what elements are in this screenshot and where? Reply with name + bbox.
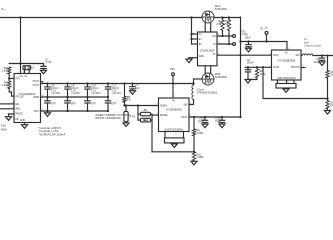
wire output rail 3.3V — [313, 55, 333, 57]
svg-text:4.7M: 4.7M — [130, 116, 135, 118]
ground U2 — [189, 57, 198, 59]
svg-text:GND: GND — [20, 119, 26, 122]
svg-text:C1+ C1-: C1+ C1- — [19, 76, 28, 78]
svg-text:Vᴵₙ: Vᴵₙ — [172, 99, 175, 102]
svg-text:PROG: PROG — [16, 113, 23, 116]
diode D1 bypass — [138, 119, 141, 121]
svg-text:LTC3226EUD: LTC3226EUD — [19, 92, 36, 96]
svg-text:OPT: OPT — [91, 102, 97, 105]
stub PGOOD — [301, 67, 305, 69]
wire U2 output sense — [217, 35, 232, 37]
ground charger GND pin — [24, 123, 26, 125]
resistor R2 475k — [221, 16, 223, 18]
svg-text:3: 3 — [269, 54, 270, 56]
svg-text:RUN: RUN — [273, 54, 279, 57]
ground jumper J2 — [125, 122, 127, 123]
wire L2 to SW — [189, 100, 194, 105]
resistor R3 1.2M — [8, 67, 11, 74]
junction top rail to ideal-diode IC — [190, 16, 192, 18]
junction top rail to charger — [19, 16, 21, 18]
wire U2 gate out — [217, 43, 232, 45]
capacitor C8* supercap 100mF — [46, 82, 48, 84]
svg-text:1: 1 — [288, 48, 289, 50]
svg-text:Vᴵₙ: Vᴵₙ — [199, 33, 202, 36]
resistor R10 1.40M — [192, 152, 195, 161]
node terminal VOUT2 — [233, 43, 236, 46]
inductor L2 2.2uH — [192, 85, 194, 100]
svg-text:8: 8 — [12, 102, 13, 104]
svg-text:VOUT: VOUT — [32, 80, 39, 83]
svg-text:3: 3 — [42, 109, 43, 111]
capacitor C11* supercap 100mF — [107, 82, 109, 84]
capacitor C1 flying box — [23, 66, 31, 70]
svg-text:2: 2 — [157, 104, 158, 106]
svg-text:SHDN: SHDN — [160, 104, 167, 107]
svg-text:475k: 475k — [216, 23, 222, 26]
capacitor C15 supercap optional — [107, 97, 109, 101]
ground divider — [327, 109, 329, 111]
wire bypass right leg to FB — [151, 114, 153, 152]
wire FB node — [193, 136, 195, 152]
svg-text:6: 6 — [190, 103, 191, 105]
svg-text:GND: GND — [199, 56, 204, 58]
svg-text:3.6V: 3.6V — [1, 124, 7, 128]
svg-text:10: 10 — [42, 95, 44, 97]
svg-text:1.60M: 1.60M — [197, 132, 204, 135]
svg-text:1.2M: 1.2M — [1, 69, 8, 73]
svg-text:OPT: OPT — [111, 102, 117, 105]
wire U2 STAT to RUN — [217, 54, 272, 56]
svg-text:Vᴵₙ: Vᴵₙ — [285, 51, 288, 54]
svg-text:PFI: PFI — [16, 77, 20, 81]
ground PROG resistor path — [6, 117, 12, 121]
svg-text:9: 9 — [175, 134, 176, 136]
capacitor C16 10uF — [221, 117, 223, 120]
svg-text:6: 6 — [218, 34, 219, 36]
svg-text:+SCAP2: +SCAP2 — [71, 92, 81, 95]
svg-text:475k: 475k — [223, 23, 229, 26]
svg-text:PGOOD: PGOOD — [291, 67, 300, 69]
ground C2 — [41, 70, 47, 74]
svg-text:AWG: AWG — [1, 127, 7, 131]
node terminal VOUT1 — [233, 35, 236, 38]
svg-text:OPT: OPT — [71, 102, 77, 105]
resistor R4 1.2M — [8, 81, 11, 89]
resistor R7 200k — [327, 99, 329, 101]
wire R4 to PFI_SET pin — [9, 89, 14, 97]
svg-text:VOUT: VOUT — [181, 116, 188, 119]
svg-text:1.40M: 1.40M — [197, 156, 204, 159]
jumper J2 shutdown — [125, 104, 127, 106]
svg-text:+SCAP4: +SCAP4 — [111, 92, 121, 95]
svg-text:1: 1 — [193, 32, 194, 34]
wire FB to pin — [152, 151, 194, 153]
wire VSC top rail — [41, 83, 194, 85]
wire divider mid — [327, 78, 329, 98]
svg-text:5: 5 — [218, 42, 219, 44]
svg-text:VLIM: VLIM — [273, 66, 279, 69]
svg-text:GND PGND EPAD: GND PGND EPAD — [165, 129, 184, 132]
svg-text:17: 17 — [42, 82, 44, 84]
wire PFI tap — [8, 74, 10, 81]
svg-text:9: 9 — [12, 107, 13, 109]
resistor R9 1.60M — [193, 116, 195, 118]
svg-text:6: 6 — [303, 54, 304, 56]
svg-text:*SUPERCAP 100mF: *SUPERCAP 100mF — [39, 133, 66, 137]
svg-text:CPO: CPO — [34, 110, 39, 113]
svg-text:VSC: VSC — [170, 67, 175, 71]
svg-text:LTC3539EDCB: LTC3539EDCB — [277, 59, 295, 63]
wire charger VIN pin stub — [20, 64, 22, 74]
transistor M1B drain wire — [194, 78, 203, 80]
wire SEL input — [1, 108, 15, 110]
capacitor C13 supercap optional — [67, 97, 69, 101]
ground supercap bank — [47, 111, 49, 113]
svg-text:9: 9 — [288, 82, 289, 84]
svg-text:OPT: OPT — [51, 102, 57, 105]
svg-text:10µF: 10µF — [215, 121, 221, 123]
ground C4 — [319, 62, 325, 66]
svg-text:10µF: 10µF — [245, 37, 251, 40]
svg-text:V+: V+ — [1, 7, 5, 11]
svg-text:5: 5 — [11, 77, 12, 79]
svg-text:1µH: 1µH — [304, 41, 309, 44]
wire boost1 output rail — [189, 116, 241, 118]
svg-text:SW: SW — [184, 103, 189, 106]
resistor R5 47k — [123, 82, 125, 84]
svg-text:Vᴵₙ_ᴬᵁˣ: Vᴵₙ_ᴬᵁˣ — [260, 27, 268, 31]
svg-text:SI7913DN: SI7913DN — [215, 75, 227, 79]
wire VC pin network — [245, 66, 272, 68]
wire bypass left leg — [137, 106, 139, 121]
svg-text:Vₒᵁᵀ: Vₒᵁᵀ — [241, 30, 245, 33]
svg-text:PFI_SET: PFI_SET — [16, 96, 26, 98]
svg-text:LTC3459EDD: LTC3459EDD — [166, 108, 182, 112]
svg-text:C1: C1 — [31, 66, 35, 70]
capacitor C9* supercap 100mF — [66, 82, 68, 84]
wire VIN_AUX bus — [240, 17, 242, 117]
svg-text:LPS4018-102MLB: LPS4018-102MLB — [304, 46, 322, 48]
wire U2 to M1B — [204, 66, 206, 73]
svg-text:+SCAP1: +SCAP1 — [51, 92, 61, 95]
transistor M1B — [202, 73, 214, 85]
svg-text:SI7913DN: SI7913DN — [215, 7, 227, 11]
wire PROG to ground — [9, 114, 15, 117]
ground U3 exposed pad — [164, 132, 166, 138]
svg-text:EN: EN — [16, 102, 20, 106]
wire top rail right of M1A — [214, 17, 241, 19]
capacitor C2 4.7uF — [43, 64, 45, 67]
svg-text:10µF: 10µF — [198, 121, 204, 123]
svg-text:SW: SW — [296, 54, 301, 57]
wire bottom rail — [41, 110, 109, 112]
wire test point to rail and VIN pin — [172, 76, 174, 98]
ground C6 — [245, 80, 251, 84]
capacitor C10* supercap 100mF — [86, 82, 88, 84]
wire SHDN feed — [125, 105, 159, 107]
svg-text:VMID: VMID — [33, 96, 39, 99]
ground C5 — [246, 48, 252, 52]
resistor R1 475k — [228, 16, 230, 18]
svg-text:SEL: SEL — [16, 107, 21, 111]
ground U4 exposed pad — [277, 80, 279, 84]
wire FB sense run — [263, 67, 328, 98]
svg-text:BOOST CONVERTER: BOOST CONVERTER — [96, 117, 122, 120]
resistor R6 402k — [327, 56, 329, 71]
wire MODE stub — [152, 114, 159, 116]
transistor M1A — [202, 11, 214, 23]
op-amp U2 ideal diode LTC4412 — [191, 18, 193, 45]
wire M1A gate-source to U2 — [204, 23, 206, 32]
wire EN input — [1, 103, 15, 105]
resistor R8 14.3k — [256, 67, 258, 69]
op-amp U4 boost converter LTC3539 — [272, 50, 302, 80]
wire charger VIN branch — [9, 63, 43, 65]
svg-text:LPS4018-222MLB: LPS4018-222MLB — [197, 92, 218, 95]
ground R10 — [193, 160, 195, 163]
wire top input rail — [1, 17, 203, 19]
wire VMID rail — [41, 96, 109, 98]
svg-text:1µF: 1µF — [135, 87, 140, 90]
svg-text:FB: FB — [16, 119, 19, 121]
capacitor C7 1uF — [131, 82, 133, 84]
svg-text:LTC4412ES6: LTC4412ES6 — [200, 49, 215, 52]
svg-text:+SCAP3: +SCAP3 — [91, 92, 101, 95]
wire VIN drop to charger — [20, 18, 22, 64]
svg-text:13: 13 — [28, 72, 30, 74]
capacitor C3 10uF — [204, 117, 206, 120]
svg-text:5: 5 — [157, 113, 158, 115]
wire VIN_AUX to U4 VIN — [267, 35, 288, 50]
svg-text:1.2M: 1.2M — [1, 83, 8, 87]
capacitor C14 supercap optional — [87, 97, 89, 101]
svg-text:100nF: 100nF — [247, 62, 254, 65]
svg-text:5: 5 — [303, 66, 304, 68]
svg-text:4.7µF: 4.7µF — [45, 60, 52, 64]
svg-text:VOUT: VOUT — [32, 84, 39, 87]
svg-text:7: 7 — [174, 96, 175, 98]
op-amp U1 supercap charger LTC3226 — [14, 74, 41, 123]
capacitor C12 supercap optional — [47, 97, 49, 101]
svg-text:MODE: MODE — [160, 114, 168, 117]
